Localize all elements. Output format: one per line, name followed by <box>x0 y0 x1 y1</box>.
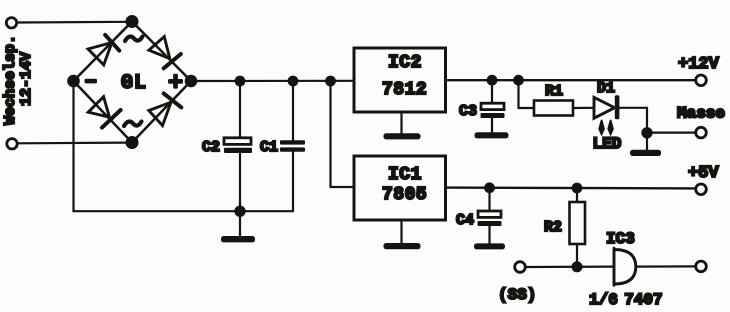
svg-text:R1: R1 <box>545 83 563 100</box>
node bridge bottom <box>127 137 138 148</box>
node bridge right <box>186 76 196 86</box>
ground below C3 <box>475 132 509 138</box>
op-amp U IC1 7805 box <box>354 156 446 220</box>
svg-text:12-14V: 12-14V <box>18 52 35 106</box>
svg-text:7805: 7805 <box>382 185 427 205</box>
LED D1 <box>594 95 619 119</box>
label Masse <box>677 105 725 123</box>
label GL <box>121 72 147 95</box>
wire AC bottom to bridge <box>18 142 132 145</box>
svg-text:C1: C1 <box>260 139 278 156</box>
label 1/6 7407 <box>589 291 663 309</box>
label IC3 <box>606 230 635 248</box>
svg-text:IC2: IC2 <box>388 53 422 73</box>
label 7805 <box>382 185 427 205</box>
wire bridge edge top-right <box>132 22 191 82</box>
resistor R2 <box>570 188 586 267</box>
node R2 bottom junction <box>573 262 582 271</box>
op-amp U IC2 7812 box <box>354 48 446 112</box>
label LED <box>593 135 622 153</box>
label Wechselsp. <box>2 35 19 125</box>
label R1 <box>545 83 563 100</box>
svg-text:IC1: IC1 <box>388 165 422 185</box>
ground IC2 <box>384 112 421 139</box>
svg-text:GL: GL <box>121 72 147 95</box>
label C3 <box>459 103 477 120</box>
terminal Masse <box>696 127 707 138</box>
node IC1 branch <box>326 77 335 86</box>
node bridge top <box>127 16 138 27</box>
label ~ top <box>125 37 143 42</box>
svg-text:+5V: +5V <box>688 164 719 183</box>
wire bridge edge bottom-right <box>132 81 191 143</box>
wire IC3 output <box>636 265 696 267</box>
wire R1 to D1 <box>573 107 594 109</box>
capacitor C4 <box>478 188 502 244</box>
svg-text:C4: C4 <box>456 212 474 229</box>
label (SS) <box>498 286 536 304</box>
label R2 <box>544 219 562 236</box>
wire AC top to bridge <box>17 21 132 24</box>
label D1 <box>597 80 615 97</box>
svg-text:Wechselsp.: Wechselsp. <box>2 35 19 125</box>
label ~ bottom <box>124 122 142 127</box>
buffer gate IC3 <box>614 248 636 285</box>
svg-text:+12V: +12V <box>678 55 720 74</box>
capacitor C1 <box>280 81 305 211</box>
label IC2 <box>388 53 422 73</box>
diode bridge upper-right <box>149 37 181 69</box>
wire branch down to IC1 <box>331 81 355 187</box>
diode bridge lower-left <box>88 97 120 128</box>
svg-text:LED: LED <box>593 135 622 153</box>
ground below C2 <box>221 211 255 242</box>
terminal +12V <box>696 75 707 86</box>
label IC1 <box>388 165 422 185</box>
ground below masse junction <box>630 133 661 156</box>
svg-text:1/6 7407: 1/6 7407 <box>589 291 663 309</box>
svg-text:C2: C2 <box>202 139 220 156</box>
node C1 top <box>289 77 298 86</box>
label C4 <box>456 212 474 229</box>
terminal AC input top <box>6 18 16 28</box>
svg-text:C3: C3 <box>459 103 477 120</box>
label +12V <box>678 55 720 74</box>
wire R1 branch <box>519 80 535 108</box>
node masse junction <box>642 128 651 137</box>
terminal IC3 output <box>696 261 707 272</box>
diode bridge lower-right <box>149 93 182 125</box>
node C3 top <box>488 76 497 85</box>
svg-text:R2: R2 <box>544 219 562 236</box>
svg-text:7812: 7812 <box>382 80 427 100</box>
diode bridge upper-left <box>88 35 119 65</box>
wire right node to IC2 <box>191 80 354 82</box>
wire bridge edge left-top <box>74 22 133 82</box>
svg-text:(SS): (SS) <box>498 286 536 304</box>
label +5V <box>688 164 719 183</box>
terminal AC input bottom <box>7 139 17 149</box>
wire bottom ground rail <box>74 210 294 212</box>
svg-text:Masse: Masse <box>677 105 725 123</box>
wire left node down <box>72 81 74 211</box>
label 12-14V <box>18 52 35 106</box>
LED arrows <box>598 120 614 137</box>
label plus <box>168 74 183 89</box>
wire IC2 output +12V rail <box>446 79 696 81</box>
label C1 <box>260 139 278 156</box>
svg-text:IC3: IC3 <box>606 230 635 248</box>
terminal SS input <box>515 262 526 273</box>
resistor R1 <box>534 101 573 116</box>
node C2 bottom <box>235 207 244 216</box>
label C2 <box>202 139 220 156</box>
capacitor C3 <box>481 80 505 133</box>
wire SS to IC3 <box>526 266 614 269</box>
capacitor C2 <box>224 81 252 211</box>
node C4 top <box>485 184 494 193</box>
label 7812 <box>382 80 427 100</box>
wire masse junction to terminal <box>647 132 696 134</box>
label minus <box>85 79 98 84</box>
terminal +5V <box>696 184 707 195</box>
wire bridge edge left-bottom <box>74 81 133 143</box>
node bridge left <box>68 76 78 86</box>
svg-text:D1: D1 <box>597 80 615 97</box>
node R1 branch <box>514 76 523 85</box>
ground below C4 <box>474 243 505 249</box>
wire IC1 output +5V rail <box>446 186 696 189</box>
wire D1 cathode to masse node <box>620 108 648 133</box>
node R2 top <box>573 184 582 193</box>
ground IC1 <box>384 220 421 249</box>
node C2 top <box>236 77 245 86</box>
